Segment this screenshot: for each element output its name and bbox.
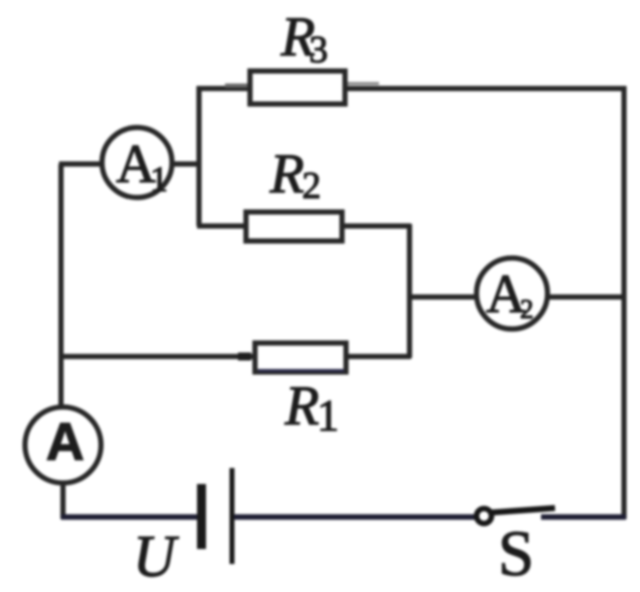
ammeter A1 bbox=[102, 128, 172, 198]
wire from branch corner to R3 left lead bbox=[197, 86, 252, 91]
ammeter A2 bbox=[477, 258, 548, 329]
svg-text:A: A bbox=[46, 413, 84, 472]
switch S pivot circle bbox=[477, 509, 492, 524]
wire from A2 right terminal to right vertical bbox=[548, 294, 626, 299]
wire branch vertical between R3 and R2 bbox=[196, 86, 201, 226]
wire from A1 right terminal to branch node bbox=[174, 161, 201, 166]
wire from left vertical to R1 left lead bbox=[61, 354, 257, 359]
wire gray lead streak left of R3 bbox=[225, 84, 248, 88]
wire bottom rail from corner to battery left plate bbox=[61, 514, 198, 520]
svg-text:R: R bbox=[269, 143, 304, 205]
svg-text:1: 1 bbox=[317, 391, 339, 440]
wire left vertical from A1 branch corner down to ammeter A bbox=[58, 164, 63, 406]
svg-text:2: 2 bbox=[302, 165, 321, 207]
wire bottom rail from switch to bottom right corner bbox=[541, 514, 626, 520]
svg-text:U: U bbox=[133, 523, 179, 589]
svg-text:2: 2 bbox=[520, 294, 534, 324]
switch S blade bbox=[492, 508, 555, 513]
ammeter A bbox=[25, 407, 101, 483]
svg-text:1: 1 bbox=[150, 159, 168, 199]
resistor R1 bbox=[255, 343, 346, 372]
wire from middle branch to ammeter A2 left terminal bbox=[410, 294, 477, 299]
battery U positive plate long thin bbox=[230, 468, 235, 564]
svg-text:R: R bbox=[284, 375, 319, 437]
resistor R3 bbox=[250, 71, 345, 104]
svg-text:3: 3 bbox=[309, 29, 328, 71]
wire middle branch vertical between R2 and R1 bbox=[407, 224, 412, 358]
wire navy tint on R1 bottom border bbox=[258, 369, 344, 372]
wire from left corner to ammeter A1 left terminal bbox=[59, 161, 101, 166]
wire bottom rail from battery to switch pivot bbox=[234, 514, 478, 520]
resistor R2 bbox=[246, 212, 342, 241]
wire from R3 right lead to top right corner bbox=[345, 86, 626, 91]
wire from ammeter A bottom to bottom rail corner bbox=[60, 485, 65, 519]
wire dark tick on R1 left lead bbox=[238, 353, 251, 361]
wire from branch corner to R2 left lead bbox=[197, 223, 248, 228]
battery U negative plate short thick bbox=[197, 484, 206, 549]
svg-text:S: S bbox=[498, 518, 534, 590]
wire gray streak right of R3 bbox=[346, 82, 379, 85]
wire from R2 right lead to middle branch vertical bbox=[342, 223, 411, 228]
wire from R1 right lead to middle branch vertical bbox=[346, 354, 411, 359]
wire right vertical from top corner to bottom corner bbox=[621, 86, 626, 519]
